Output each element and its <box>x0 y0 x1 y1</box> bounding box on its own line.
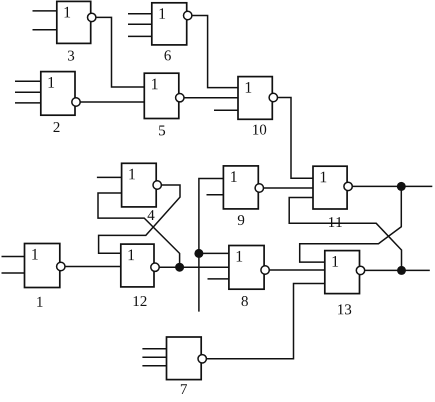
wire gate12 output to gate8 in2 <box>159 266 229 268</box>
NOR gate 7 <box>167 337 207 380</box>
gate 1 label <box>37 297 42 307</box>
wire junction to gate8 in1 <box>199 252 229 254</box>
gate 4 input stub <box>97 176 122 178</box>
wire gate4 output to gate12 in1 (cross) <box>99 185 180 253</box>
wire gate1 output to gate12 in2 <box>65 266 121 268</box>
gate 8 input stub <box>208 278 229 280</box>
wire gate13 output branch to gate11 in3 (cross) <box>289 198 401 271</box>
NOR gate 13 <box>325 251 365 294</box>
gate 12 label <box>134 296 147 306</box>
NOR gate 8 <box>229 246 269 290</box>
gate 11 label <box>329 217 342 227</box>
gate 10 input stub <box>214 109 238 111</box>
wire gate10 output to gate11 in1 <box>278 98 314 179</box>
wire gate12 output branch to gate4 in2 (cross) <box>98 193 180 267</box>
gate 2 input stubs <box>15 81 41 103</box>
junction dot on gate12 output <box>175 263 184 272</box>
wire gate2 output to gate5 in2 <box>80 101 144 103</box>
gate 10 label <box>253 125 266 135</box>
gate 7 label <box>181 384 187 394</box>
gate 2 label <box>54 122 60 132</box>
wire gate11 output branch to gate13 in1 (cross) <box>300 186 402 262</box>
NOR gate 10 <box>238 77 277 120</box>
wire gate13 output to right edge <box>365 269 430 271</box>
NOR gate 1 <box>25 244 66 288</box>
NOR gate 3 <box>57 1 96 43</box>
junction dot on gate13 output <box>397 266 406 275</box>
wire gate9 output to gate11 in2 <box>264 187 314 189</box>
gate 9 input stub <box>207 194 224 196</box>
gate 13 label <box>338 304 351 314</box>
NOR gate 9 <box>223 166 263 209</box>
gate 8 label <box>242 296 248 306</box>
gate 7 input stubs <box>142 349 166 366</box>
NOR gate 2 <box>41 72 80 116</box>
NOR gate 5 <box>144 73 184 118</box>
gate 4 label <box>148 210 155 220</box>
gate 3 label <box>68 51 74 61</box>
gate 3 input stubs <box>33 11 57 30</box>
wire gate8 output to gate13 in2 <box>269 269 325 271</box>
NOR gate 12 <box>121 244 159 287</box>
wire gate6 output to gate10 in1 <box>192 16 238 88</box>
gate 5 label <box>159 126 165 136</box>
wire gate11 output to right edge <box>352 185 432 187</box>
gate 1 input stubs <box>2 257 25 274</box>
junction dot on vertical input line <box>194 249 203 258</box>
wire external vertical input to gate9 in1 <box>199 179 224 312</box>
gate 6 label <box>165 50 171 60</box>
NOR gate 11 <box>313 166 352 209</box>
wire gate5 output to gate10 in2 <box>184 97 238 99</box>
NOR gate 6 <box>152 3 192 45</box>
wire gate3 output to gate5 in1 <box>96 17 144 87</box>
junction dot on gate11 output <box>397 182 406 191</box>
NOR gate 4 <box>122 163 162 207</box>
gate 9 label <box>238 215 244 225</box>
wire gate7 output to gate13 in3 <box>206 284 324 359</box>
gate 6 input stubs <box>128 14 152 37</box>
